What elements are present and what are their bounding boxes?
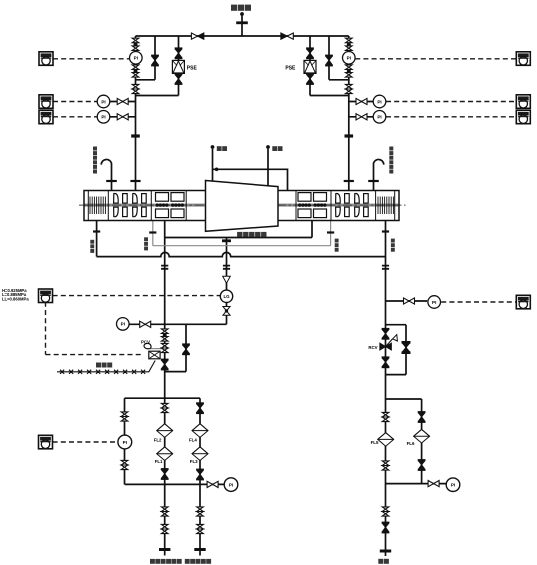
flange gooseneck right — [368, 180, 379, 182]
wire seal drain header — [165, 221, 312, 238]
svg-text:PI: PI — [451, 483, 455, 488]
gauge PI recycle — [428, 296, 441, 309]
wire right bypass branch — [329, 36, 349, 80]
label vent 2 — [272, 146, 277, 151]
wire right gauge tap lower — [349, 116, 373, 118]
funnel pot inlet — [223, 276, 231, 283]
valve block right main upper — [346, 38, 353, 50]
flange seal drain left — [149, 231, 156, 233]
DCS box PI right low — [516, 110, 530, 124]
labyrinth hatch left end — [90, 197, 105, 215]
filter FL1 — [157, 447, 173, 461]
shaft seal R1 — [298, 193, 311, 218]
label to flare — [231, 5, 237, 11]
gauge PI right main — [343, 52, 356, 65]
wire flare riser — [241, 16, 243, 37]
valve PSE left upper — [175, 48, 183, 58]
wire instrument air supply — [57, 361, 155, 374]
valve filter B bottom (filled) — [196, 470, 204, 480]
wire left lower main — [164, 238, 166, 399]
valve gauge tap R1 — [356, 98, 367, 104]
flange pair right main lower — [382, 266, 389, 269]
svg-text:PI: PI — [123, 440, 127, 445]
svg-text:FL4: FL4 — [189, 437, 197, 442]
valve PSE right upper — [306, 48, 314, 58]
gauge PI tap R2 — [373, 111, 386, 124]
labyrinth hatch right end — [378, 197, 393, 215]
rupture disc PSE right — [304, 60, 316, 73]
regulator PCV — [141, 340, 160, 359]
valve suction gauge line — [140, 321, 151, 327]
casing divider lines — [88, 191, 394, 221]
label drain A (vertical) — [90, 240, 94, 244]
flange right main outlet — [382, 230, 389, 232]
valve RCV bypass (filled) — [402, 342, 411, 352]
svg-text:FL3: FL3 — [190, 459, 198, 464]
filter FL3 — [192, 447, 208, 461]
casing box left — [84, 191, 399, 221]
gauge PG suction — [117, 318, 130, 331]
valve right main mid — [382, 461, 389, 470]
wire right gooseneck vent — [374, 159, 384, 190]
wire right filter branch link — [386, 399, 422, 484]
flange pair pot branch — [223, 266, 230, 269]
impeller cell R1 — [336, 193, 350, 216]
wire left main riser — [135, 36, 137, 191]
label right outlet (vertical) — [391, 239, 395, 243]
balance line junction dot — [215, 168, 219, 172]
flare tip dot — [240, 12, 244, 16]
check valve left — [191, 33, 197, 39]
valve bypass left (filled) — [151, 56, 159, 66]
DCS box PI bottom left — [39, 435, 53, 449]
wire condensate pot branch — [226, 238, 228, 325]
valve right main lower 2 (filled) — [382, 523, 390, 533]
valve right main lower 1 — [382, 507, 389, 516]
impeller cell L1 — [114, 193, 128, 216]
flange gooseneck left — [106, 180, 117, 182]
svg-text:RCV: RCV — [368, 345, 377, 350]
flange column B end — [194, 548, 205, 551]
label gooseneck right (vertical) — [389, 147, 393, 151]
svg-text:PSE: PSE — [187, 65, 198, 71]
control valve RCV — [380, 335, 398, 351]
wire left manifold header — [125, 397, 201, 399]
wire machine vent riser 1 — [212, 149, 214, 183]
check valve right — [281, 33, 287, 39]
DCS box PIC — [39, 289, 53, 303]
compressor shaft left — [84, 204, 206, 207]
flange left main inlet — [130, 180, 140, 182]
valve right gauge stub — [404, 298, 415, 304]
valve gauge tap L1 — [117, 98, 128, 104]
flange right main inlet — [344, 180, 354, 182]
valve left manifold — [207, 481, 218, 487]
DCS box PT right top — [516, 52, 530, 66]
label instrument air — [96, 363, 101, 368]
svg-text:LG: LG — [223, 294, 230, 299]
flange seal drain right — [327, 231, 334, 233]
wire discharge header — [136, 35, 349, 37]
wire left drain manifold — [125, 483, 225, 485]
wire left gauge column — [124, 398, 126, 484]
flange column A end — [159, 548, 170, 551]
gauge PI tap R1 — [373, 95, 386, 108]
label vent 1 — [217, 146, 222, 151]
valve column B lower 1 — [197, 507, 204, 516]
compressor shaft right — [278, 204, 399, 207]
flare flange bar — [236, 21, 248, 24]
svg-text:FL1: FL1 — [155, 459, 163, 464]
filter FL6 — [414, 429, 430, 443]
valve pair left main — [132, 84, 139, 93]
vent nozzle dot 2 — [266, 145, 270, 149]
label compressor — [237, 232, 242, 237]
valve left main iso mid — [161, 343, 168, 352]
label bottom left lines — [150, 559, 155, 564]
wire left casing drain to surge line — [96, 221, 98, 257]
valve left main spec (filled) — [161, 360, 169, 370]
svg-text:FL2: FL2 — [154, 437, 162, 442]
valve pair right main — [346, 84, 353, 93]
label seal drain right (vertical) — [335, 239, 339, 243]
svg-text:FL6: FL6 — [407, 441, 415, 446]
wire left PSE branch — [136, 36, 179, 96]
gauge PI tap L1 — [97, 95, 110, 108]
valve FL6 branch top (filled) — [418, 412, 426, 422]
valve gauge tap R2 — [356, 114, 367, 120]
shaft seal L1 — [156, 193, 169, 218]
valve FL6 branch bottom (filled) — [418, 460, 426, 470]
svg-text:PSE: PSE — [285, 65, 296, 71]
valve bypass right (filled) — [325, 56, 333, 66]
flange right main end — [380, 550, 391, 553]
gauge PI tap L2 — [97, 111, 110, 124]
wire left gauge tap lower — [110, 116, 136, 118]
filter FL5 — [378, 433, 394, 447]
wire left bypass branch — [136, 36, 156, 80]
valve block left main upper — [132, 38, 139, 50]
wire right lower main — [385, 221, 387, 557]
svg-text:LL=0.860MPa: LL=0.860MPa — [2, 297, 29, 302]
DCS box PI right mid — [516, 95, 530, 109]
spectacle blind left main — [131, 134, 140, 137]
wire PCV bypass loop — [165, 324, 186, 371]
svg-text:FL5: FL5 — [371, 440, 379, 445]
valve block right main lower — [346, 65, 353, 77]
wire left filter column A — [164, 398, 166, 555]
valve right main below manifold — [382, 412, 389, 421]
valve filter B top (filled) — [196, 403, 204, 413]
spectacle blind right main — [345, 134, 354, 137]
wire balance line — [213, 169, 288, 190]
condensate pot — [220, 290, 232, 302]
flange pair left main lower — [161, 266, 168, 269]
label gooseneck left (vertical) — [93, 147, 97, 151]
valve filter A top — [161, 403, 168, 412]
wire RCV bypass loop — [386, 325, 407, 375]
flange pot branch top — [222, 239, 231, 242]
valve column A lower 2 — [161, 524, 168, 533]
wire right PSE branch — [310, 36, 349, 96]
wire seal oil grey header — [150, 221, 331, 349]
DCS box PI left mid — [39, 95, 53, 109]
flange casing drain A — [93, 230, 100, 232]
wire PCV sensing tap — [150, 348, 165, 350]
impeller cell L2 — [133, 193, 147, 216]
valve PCV bypass (filled) — [182, 344, 190, 354]
shaft seal R2 — [314, 193, 327, 218]
wire surge line with hops — [97, 252, 386, 256]
wire machine vent riser 2 — [267, 149, 269, 187]
wire left gooseneck vent — [101, 159, 111, 190]
vent nozzle dot 1 — [211, 145, 215, 149]
filter FL2 — [157, 424, 173, 438]
valve pot outlet — [223, 307, 230, 316]
gauge PI left manifold — [224, 478, 238, 492]
wire right gauge stub — [386, 300, 428, 302]
label exhaust — [378, 559, 383, 564]
DCS box PI left low — [39, 110, 53, 124]
rupture disc PSE left — [172, 60, 184, 73]
gauge PI right manifold — [446, 478, 460, 492]
wire instrument dashed lines — [46, 59, 517, 442]
valve PSE left lower — [175, 74, 183, 84]
compressor centerline — [79, 204, 406, 206]
valve RCV downstream (filled) — [382, 357, 390, 367]
wire right main riser — [348, 36, 350, 191]
DCS box PT left top — [39, 52, 53, 66]
filter FL4 — [192, 424, 208, 438]
gauge PI suction local — [118, 435, 132, 449]
valve RCV upstream (filled) — [382, 329, 390, 339]
DCS box PI right lower — [516, 295, 530, 309]
valve column A lower 1 — [161, 507, 168, 516]
valve left main iso upper — [161, 329, 168, 341]
valve left gauge column lower — [121, 460, 128, 469]
shaft seal L2 — [171, 193, 184, 218]
valve filter A bottom (filled) — [161, 469, 169, 479]
valve block left main lower — [132, 65, 139, 77]
wire right gauge tap upper — [349, 101, 373, 103]
svg-text:PI: PI — [229, 483, 233, 488]
wire suction gauge line — [129, 323, 226, 325]
wire left filter column B — [199, 398, 201, 555]
label seal drain left (vertical) — [144, 237, 148, 241]
wire right drain manifold — [386, 483, 447, 485]
valve gauge tap L2 — [117, 114, 128, 120]
gauge PI left main — [130, 52, 143, 65]
valve PSE right lower — [306, 74, 314, 84]
wire left gauge tap upper — [110, 101, 136, 103]
impeller cell R2 — [355, 193, 369, 216]
valve column B lower 2 — [197, 524, 204, 533]
valve left gauge column upper — [121, 412, 128, 421]
valve right manifold — [428, 481, 439, 487]
compressor body trapezoid — [206, 181, 279, 232]
